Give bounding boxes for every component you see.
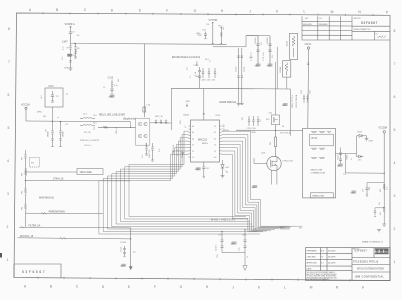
ground (near IC left) [181, 153, 184, 155]
svg-text:7: 7 [8, 60, 10, 64]
svg-text:3: 3 [7, 192, 9, 196]
svg-text:0.1u: 0.1u [142, 155, 144, 159]
capacitor C95 [363, 183, 385, 194]
svg-text:F: F [166, 9, 168, 13]
ground (CH6) [243, 266, 247, 271]
connector net label box GRMB [310, 193, 333, 198]
svg-text:4.7k: 4.7k [387, 187, 389, 190]
capacitor C148 [108, 78, 118, 95]
wire VCOM rail [71, 37, 227, 44]
svg-text:R41: R41 [43, 116, 46, 118]
net label box 1015 LANE [77, 169, 103, 175]
wire into Q11 [98, 126, 136, 128]
svg-text:MHDB: MHDB [63, 131, 65, 137]
svg-text:D.M.: D.M. [319, 18, 323, 20]
svg-text:C2509: C2509 [255, 37, 257, 44]
svg-text:C55: C55 [146, 143, 148, 146]
svg-text:R742: R742 [312, 138, 318, 140]
part number box bottom left [14, 264, 61, 278]
svg-text:MHD MH1411: MHD MH1411 [39, 196, 55, 199]
svg-text:C104: C104 [48, 86, 54, 88]
ground (CR3) [221, 176, 225, 178]
wire C104 drop [52, 107, 54, 128]
ground (D14) [365, 139, 374, 143]
capacitor C57 [202, 30, 207, 39]
svg-text:C14: C14 [93, 115, 96, 117]
wire A111 to rail [276, 47, 278, 89]
svg-text:C554: C554 [337, 155, 339, 160]
svg-text:R80A: R80A [279, 66, 282, 72]
svg-text:LCD15 75B61A: LCD15 75B61A [295, 94, 298, 108]
resistor R95 [380, 184, 389, 192]
svg-text:IBM CONFIDENTIAL: IBM CONFIDENTIAL [355, 275, 384, 279]
transistor Q25 pass FET [269, 62, 280, 125]
ground (C1500/C1506) [237, 104, 244, 106]
svg-text:GND: GND [231, 243, 236, 245]
svg-text:L: L [284, 286, 286, 290]
svg-text:GND: GND [282, 105, 287, 107]
IC U1 MAC211 [189, 115, 225, 162]
svg-text:ERASE PAGE 14 (LOAD 2): ERASE PAGE 14 (LOAD 2) [172, 56, 200, 59]
svg-text:220k: 220k [310, 90, 312, 94]
capacitor C5734 [194, 65, 202, 88]
power VCC1M [21, 104, 30, 122]
capacitor bank C2509 [251, 36, 260, 64]
svg-text:6: 6 [8, 93, 10, 97]
svg-text:L: L [304, 10, 306, 14]
resistor R31 on wire [103, 126, 108, 128]
svg-text:C55: C55 [343, 174, 346, 176]
svg-text:10k: 10k [77, 35, 80, 37]
resistor 220k pair [301, 90, 312, 102]
svg-text:KPLOCK_15: KPLOCK_15 [20, 236, 34, 238]
junction [130, 127, 131, 128]
svg-text:APPROVED: APPROVED [307, 262, 318, 265]
svg-text:1: 1 [7, 258, 9, 262]
transistor Q24 [261, 153, 293, 171]
svg-text:X1: X1 [66, 94, 68, 96]
ground (R97 chain) [377, 224, 386, 232]
scan artifact dash at left page edge [0, 253, 2, 258]
ground (C41) [195, 167, 201, 171]
svg-text:VCOM A: VCOM A [65, 22, 75, 26]
svg-text:7: 7 [394, 62, 396, 66]
wire J7 to C554 [335, 153, 356, 155]
svg-text:TITLE 50250-1 PVT(1.0): TITLE 50250-1 PVT(1.0) [353, 261, 378, 263]
svg-text:B0: B0 [214, 126, 216, 128]
svg-text:VCC1M: VCC1M [21, 104, 30, 107]
svg-text:0.1u: 0.1u [63, 47, 65, 51]
wire branch to cap bank [213, 36, 270, 47]
svg-text:D0: D0 [192, 145, 194, 147]
net VTTON [209, 18, 218, 44]
small gnd near IC top [186, 101, 191, 107]
junction [52, 121, 53, 122]
resistor R13 [219, 26, 224, 44]
svg-text:C57: C57 [260, 119, 262, 122]
svg-text:RELIG_IER_LINE_EXER: RELIG_IER_LINE_EXER [99, 115, 125, 117]
svg-text:1u: 1u [57, 117, 59, 119]
ground (C148) [109, 95, 115, 99]
arrow terminal (C1540) [129, 265, 132, 270]
svg-text:R62: R62 [22, 173, 24, 176]
ground label box (CV7/CH6) [231, 242, 237, 246]
svg-text:22u: 22u [133, 252, 136, 254]
svg-text:C41: C41 [206, 168, 209, 170]
svg-text:A111: A111 [286, 40, 289, 46]
svg-text:GND: GND [369, 141, 374, 143]
svg-text:GND: GND [64, 68, 69, 70]
svg-text:[Brightness]: [Brightness] [124, 118, 136, 121]
vertical net labels VFB/TFT [292, 94, 298, 108]
svg-text:PART NO: PART NO [354, 17, 362, 20]
resistor R7 [67, 44, 72, 52]
svg-text:31/4.7u: 31/4.7u [216, 245, 218, 251]
resistor R22 chain [59, 121, 65, 147]
svg-text:75B61: 75B61 [347, 155, 349, 160]
svg-text:GND: GND [267, 65, 272, 67]
svg-text:C154: C154 [121, 247, 123, 252]
svg-text:R63: R63 [22, 191, 24, 194]
wire to 1015 LANE box [26, 168, 77, 176]
svg-text:GND2: GND2 [195, 76, 201, 78]
connector J7 block [303, 128, 336, 198]
svg-text:4.7k: 4.7k [159, 149, 161, 152]
svg-text:CS: CS [192, 157, 194, 159]
capacitor C1506 [241, 48, 246, 104]
svg-text:CP449: CP449 [120, 242, 127, 244]
svg-text:GND: GND [337, 165, 342, 167]
svg-text:DTA114 3B: DTA114 3B [283, 160, 294, 163]
svg-text:2: 2 [394, 227, 396, 231]
svg-text:GND: GND [186, 101, 191, 103]
wire NTCOM [236, 130, 303, 135]
diode D15 [357, 154, 364, 162]
diode CR3 [221, 160, 229, 176]
svg-text:M: M [331, 10, 334, 14]
capacitor C554 [337, 148, 348, 164]
svg-text:Q25: Q25 [269, 113, 273, 115]
svg-text:4: 4 [7, 159, 9, 163]
vertical labels near IC left [172, 145, 184, 158]
svg-text:1015 LANE: 1015 LANE [80, 171, 93, 174]
svg-text:Q0: Q0 [214, 145, 216, 147]
svg-text:FILTER_5A: FILTER_5A [29, 225, 41, 228]
svg-text:21AC 10k: 21AC 10k [148, 150, 151, 158]
svg-text:8: 8 [394, 29, 396, 33]
svg-text:VCC5M: VCC5M [379, 127, 387, 130]
svg-text:C16: C16 [94, 127, 96, 130]
small module box [30, 158, 40, 168]
svg-text:GND: GND [350, 192, 355, 194]
svg-text:R96: R96 [369, 187, 371, 190]
svg-text:MTSU SYSTEM/SYSTEM: MTSU SYSTEM/SYSTEM [357, 268, 384, 270]
revision table [302, 16, 390, 40]
wire rail left drop [170, 88, 172, 130]
svg-text:R15 220: R15 220 [84, 132, 91, 134]
wire rail right drop [290, 89, 292, 136]
svg-text:10k: 10k [223, 27, 225, 30]
svg-text:C.14 1.0u: C.14 1.0u [263, 52, 265, 61]
svg-text:GND: GND [195, 169, 200, 171]
svg-text:1N14: 1N14 [357, 132, 363, 134]
wire KEYBD_ON [25, 179, 130, 182]
svg-text:05/14/93: 05/14/93 [328, 250, 335, 252]
svg-text:SELECTOR: SELECTOR [311, 170, 323, 172]
svg-text:GND: GND [251, 187, 256, 189]
svg-text:1u: 1u [351, 158, 353, 160]
svg-text:R97: R97 [380, 212, 382, 215]
svg-text:13A13: 13A13 [183, 114, 190, 117]
svg-text:MAC211: MAC211 [198, 139, 208, 142]
ground (C554) [337, 164, 343, 168]
svg-text:R61: R61 [22, 157, 24, 160]
wire gate Q24 [254, 158, 267, 163]
svg-text:C9: C9 [76, 50, 78, 52]
wire bus right staircase [222, 131, 297, 232]
svg-text:LN13_8: LN13_8 [116, 127, 118, 134]
svg-text:4.7k: 4.7k [62, 57, 64, 60]
inductor L41 [80, 114, 96, 119]
svg-text:C56: C56 [206, 24, 209, 26]
capacitor C1500 [236, 48, 240, 104]
svg-text:M: M [310, 286, 313, 290]
svg-text:F: F [154, 285, 156, 289]
svg-text:D2: D2 [192, 151, 194, 153]
svg-text:C155 C156: C155 C156 [247, 128, 256, 130]
svg-text:NTCOM_A: NTCOM_A [280, 131, 291, 134]
inductor L24 body [143, 107, 146, 112]
svg-text:14.3: 14.3 [41, 96, 43, 100]
ground (C95) [350, 191, 368, 197]
wire R80A to rail [286, 77, 288, 89]
discrete row below (C160x) [195, 68, 216, 82]
svg-text:GND: GND [120, 266, 125, 268]
resistor array A111 [286, 33, 298, 59]
svg-text:4.7u: 4.7u [114, 85, 118, 87]
svg-text:ERAM PAB2111: ERAM PAB2111 [220, 101, 237, 104]
wire CV7-CH6 join [222, 253, 245, 266]
svg-text:G: G [194, 9, 197, 13]
svg-text:C2506: C2506 [267, 37, 269, 44]
svg-text:GND: GND [255, 65, 260, 67]
power VCC5M [379, 127, 387, 197]
svg-text:05/14/93: 05/14/93 [303, 24, 312, 26]
svg-text:8: 8 [8, 27, 10, 31]
ground (C2506) [267, 64, 273, 68]
svg-text:6: 6 [394, 95, 396, 99]
svg-text:MHD: MHD [37, 112, 42, 114]
svg-text:R64: R64 [22, 207, 24, 210]
capacitor CV7 [216, 231, 224, 253]
svg-text:J: J [232, 285, 234, 289]
svg-text:-PWRDWTDWN: -PWRDWTDWN [48, 212, 65, 214]
net label VCOM_A [65, 22, 75, 28]
svg-text:C.12 4.7u: C.12 4.7u [251, 52, 253, 61]
transistor array Q11 [136, 119, 150, 146]
svg-text:10k: 10k [379, 202, 381, 205]
capacitor C7 [69, 28, 76, 37]
capacitor bank C2506 [263, 36, 272, 64]
misc value labels [41, 24, 381, 258]
svg-text:PRECHG_COMPTN: PRECHG_COMPTN [80, 140, 100, 142]
ground (VCOM chain) [64, 59, 72, 70]
svg-text:3: 3 [394, 194, 396, 198]
svg-text:53F6567: 53F6567 [361, 21, 378, 25]
svg-text:DATE: DATE [307, 267, 313, 270]
svg-text:GRMB LINE: GRMB LINE [312, 196, 325, 198]
net label VBBGen [280, 226, 303, 229]
ground (Q24) [251, 185, 257, 189]
svg-text:05/14/93: 05/14/93 [328, 263, 335, 265]
svg-text:25F6846: 25F6846 [319, 24, 328, 26]
svg-text:C160 C161 C162: C160 C161 C162 [201, 80, 216, 82]
ground tab mid chain [67, 54, 71, 57]
svg-text:MHD1: MHD1 [202, 143, 209, 145]
svg-text:0.1: 0.1 [190, 76, 192, 79]
IBM logo [375, 248, 389, 254]
svg-text:R81: R81 [270, 142, 272, 145]
svg-text:5: 5 [394, 128, 396, 132]
junctions on VCOM rail [212, 43, 222, 44]
svg-text:Q2: Q2 [214, 151, 216, 153]
capacitor C8 [69, 52, 76, 60]
resistor array R80A [279, 61, 291, 77]
capacitor row C155 [247, 116, 260, 130]
resistor chain 21AC 10k [145, 143, 154, 161]
resistor chain left column R61 [22, 150, 27, 227]
svg-text:1.0u: 1.0u [239, 247, 241, 251]
svg-text:D15: D15 [358, 160, 361, 162]
resistor R14 [80, 123, 96, 126]
capacitor CH6 [239, 229, 248, 252]
svg-text:1B12_18: 1B12_18 [155, 116, 163, 118]
svg-text:R14: R14 [93, 123, 96, 125]
svg-text:C148: C148 [108, 78, 114, 80]
diode D14 [357, 132, 367, 154]
capacitor row C31 C32 C33 [150, 114, 190, 125]
svg-text:05/14/93: 05/14/93 [328, 256, 335, 258]
junction node [74, 43, 75, 44]
svg-text:G: G [180, 285, 183, 289]
svg-text:PREPARED: PREPARED [307, 249, 318, 252]
svg-text:R80: R80 [266, 119, 269, 121]
wire drop from VCOM rail [143, 44, 145, 118]
svg-text:53F6567: 53F6567 [355, 249, 368, 253]
svg-text:1u: 1u [247, 256, 249, 258]
svg-text:C1: C1 [103, 87, 105, 89]
svg-text:1: 1 [394, 260, 396, 264]
wire signal rail y88 [171, 87, 290, 90]
svg-text:5: 5 [8, 126, 10, 130]
svg-text:VFBQ TFT15.2: VFBQ TFT15.2 [292, 95, 294, 108]
wire mid right [345, 154, 384, 174]
capacitor C8013 [305, 44, 312, 128]
svg-text:J: J [249, 9, 251, 13]
wire FILTER_5A [19, 225, 131, 230]
svg-text:GND: GND [196, 33, 201, 35]
ground (near VFB labels) [282, 103, 288, 107]
wires IC top feeds [203, 89, 205, 121]
capacitor C1540 branch [120, 230, 136, 268]
svg-text:CR3: CR3 [225, 167, 229, 169]
svg-text:STIH4_16: STIH4_16 [53, 179, 64, 181]
svg-text:C77: C77 [187, 67, 189, 70]
resistor R21 chain [47, 128, 54, 147]
wire KBLOCK_15V [18, 236, 131, 240]
svg-text:DEVELOPMENT NO: DEVELOPMENT NO [354, 29, 371, 31]
wires Q24 legs [272, 170, 277, 184]
svg-text:R95: R95 [380, 189, 382, 192]
svg-text:T21: T21 [56, 96, 59, 98]
svg-text:GND: GND [109, 96, 114, 98]
wire -PWRDWN [26, 212, 104, 215]
junction (VCC5M rail) [384, 173, 385, 174]
svg-text:MHDA: MHDA [47, 131, 50, 137]
svg-text:DRAW TO REV(2/1.2): DRAW TO REV(2/1.2) [362, 240, 383, 243]
svg-text:1k: 1k [210, 60, 212, 62]
svg-text:R18: R18 [118, 79, 120, 82]
svg-text:R51: R51 [242, 117, 244, 120]
wire VCC1M rail [26, 120, 131, 123]
resistor R9 [74, 44, 80, 59]
svg-text:13A7: 13A7 [62, 41, 68, 44]
capacitor C41 under IC [202, 162, 209, 178]
svg-text:MHDI MB21(X): MHDI MB21(X) [211, 217, 236, 221]
svg-text:B2: B2 [214, 132, 216, 134]
resistor R81 [270, 125, 277, 157]
svg-text:C1506: C1506 [244, 67, 246, 72]
svg-text:CONNECT(.)R: CONNECT(.)R [311, 172, 326, 174]
svg-text:53F6567: 53F6567 [22, 270, 46, 274]
ground (C2509) [255, 64, 261, 68]
svg-text:C1500: C1500 [236, 67, 238, 72]
capacitor C104 [45, 86, 63, 107]
svg-text:B4: B4 [214, 138, 216, 140]
wire bus left staircase [99, 131, 260, 234]
svg-text:VTTON: VTTON [209, 18, 218, 22]
bottom right chain R97 [374, 196, 385, 224]
label cluster B02 [197, 60, 199, 66]
svg-text:C8013: C8013 [305, 44, 312, 46]
svg-text:C21: C21 [65, 124, 68, 126]
svg-text:2: 2 [7, 225, 9, 229]
svg-text:4: 4 [394, 161, 396, 165]
svg-text:4.7: 4.7 [185, 126, 187, 129]
svg-text:220k: 220k [301, 90, 303, 94]
title block [306, 248, 390, 282]
svg-text:C18 0.1u: C18 0.1u [84, 145, 91, 147]
small gnd near 5734 [196, 33, 202, 35]
svg-text:CHECKED: CHECKED [307, 256, 317, 258]
